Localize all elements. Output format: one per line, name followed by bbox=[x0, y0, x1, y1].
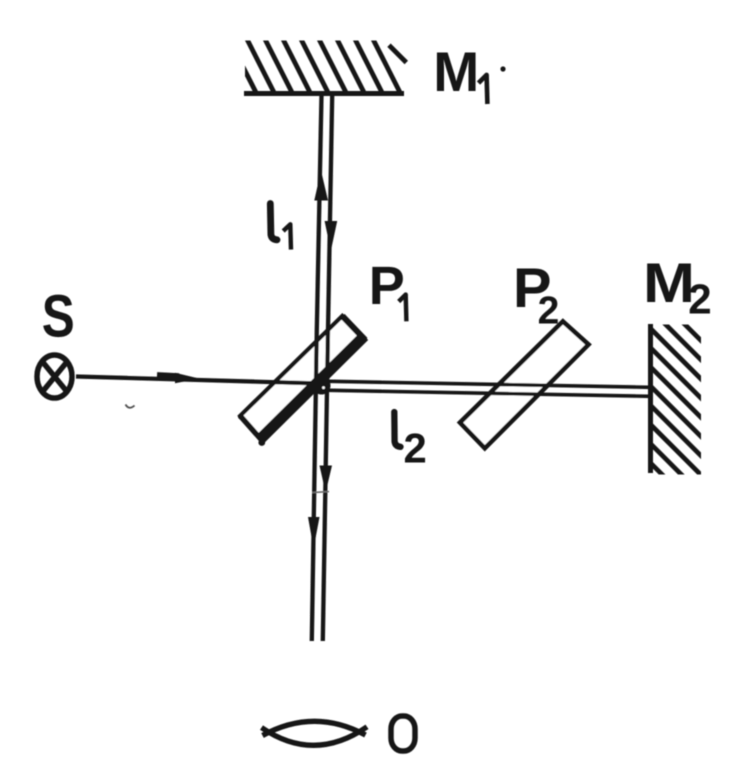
arrow down on l1 right line bbox=[325, 221, 338, 251]
mirror M1 bbox=[244, 91, 404, 96]
compensator plate P2 bbox=[460, 321, 589, 448]
svg-text:2: 2 bbox=[688, 275, 711, 322]
mirror M2 hatching bbox=[645, 285, 706, 538]
svg-text:M: M bbox=[643, 251, 695, 314]
svg-text:S: S bbox=[42, 283, 75, 350]
arrow right on input beam bbox=[157, 373, 200, 383]
wire: beam l1 left (up-going) line bbox=[312, 95, 322, 641]
label l2 bbox=[394, 412, 426, 472]
svg-text:M: M bbox=[433, 40, 479, 103]
P1 reflective coating (thick edge) bbox=[238, 334, 365, 446]
mirror M1 hatching bbox=[227, 36, 402, 98]
wire: beam l2 upper line (P1 to M2) bbox=[324, 381, 650, 387]
label M1 bbox=[433, 40, 487, 104]
speckle artifact below input beam bbox=[126, 405, 135, 408]
label O bbox=[391, 716, 415, 751]
wire: input beam from S to P1 bbox=[76, 377, 321, 384]
lens O bbox=[262, 721, 368, 745]
svg-text:2: 2 bbox=[538, 290, 560, 333]
arrow down on output right line bbox=[320, 466, 333, 493]
mirror M1 hatch top-right dash bbox=[389, 45, 406, 62]
label l1 bbox=[270, 204, 291, 250]
arrow up on l1 left line bbox=[314, 171, 328, 201]
junction blob at P1 crossing bbox=[313, 377, 331, 395]
faint tick on output beam bbox=[312, 492, 329, 493]
label P2 bbox=[513, 256, 559, 333]
dot after M1 bbox=[500, 66, 505, 71]
source S symbol (circled X) bbox=[37, 355, 72, 398]
label S bbox=[42, 283, 75, 350]
svg-text:2: 2 bbox=[404, 425, 427, 472]
wire: beam l2 lower line (return from M2) bbox=[324, 390, 650, 396]
mirror M2 bbox=[648, 324, 653, 473]
wire: beam l1 right (return) line bbox=[323, 95, 332, 641]
arrow down on output left line bbox=[308, 517, 320, 549]
beam splitter P1 bbox=[240, 316, 365, 441]
label M2 bbox=[643, 251, 712, 322]
label P1 bbox=[369, 256, 407, 321]
svg-text:P: P bbox=[369, 256, 405, 316]
